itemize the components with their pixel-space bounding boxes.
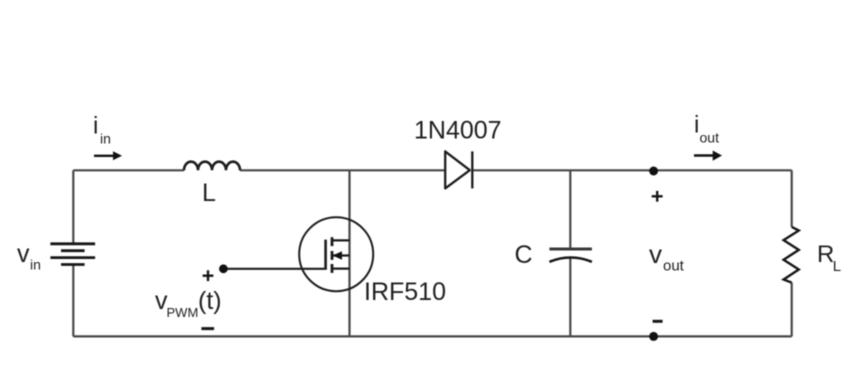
svg-text:L: L: [202, 179, 216, 207]
svg-text:C: C: [515, 241, 533, 269]
svg-text:IRF510: IRF510: [364, 278, 446, 306]
svg-text:PWM: PWM: [167, 305, 199, 320]
svg-text:out: out: [663, 258, 685, 275]
svg-text:i: i: [93, 113, 98, 140]
svg-text:out: out: [700, 129, 720, 145]
svg-text:1N4007: 1N4007: [414, 117, 502, 145]
svg-text:v: v: [649, 239, 662, 269]
svg-text:R: R: [817, 241, 834, 268]
svg-text:v: v: [17, 240, 30, 268]
svg-text:L: L: [833, 258, 841, 275]
svg-text:in: in: [30, 257, 41, 273]
svg-text:(t): (t): [198, 287, 222, 315]
svg-text:in: in: [100, 130, 111, 146]
